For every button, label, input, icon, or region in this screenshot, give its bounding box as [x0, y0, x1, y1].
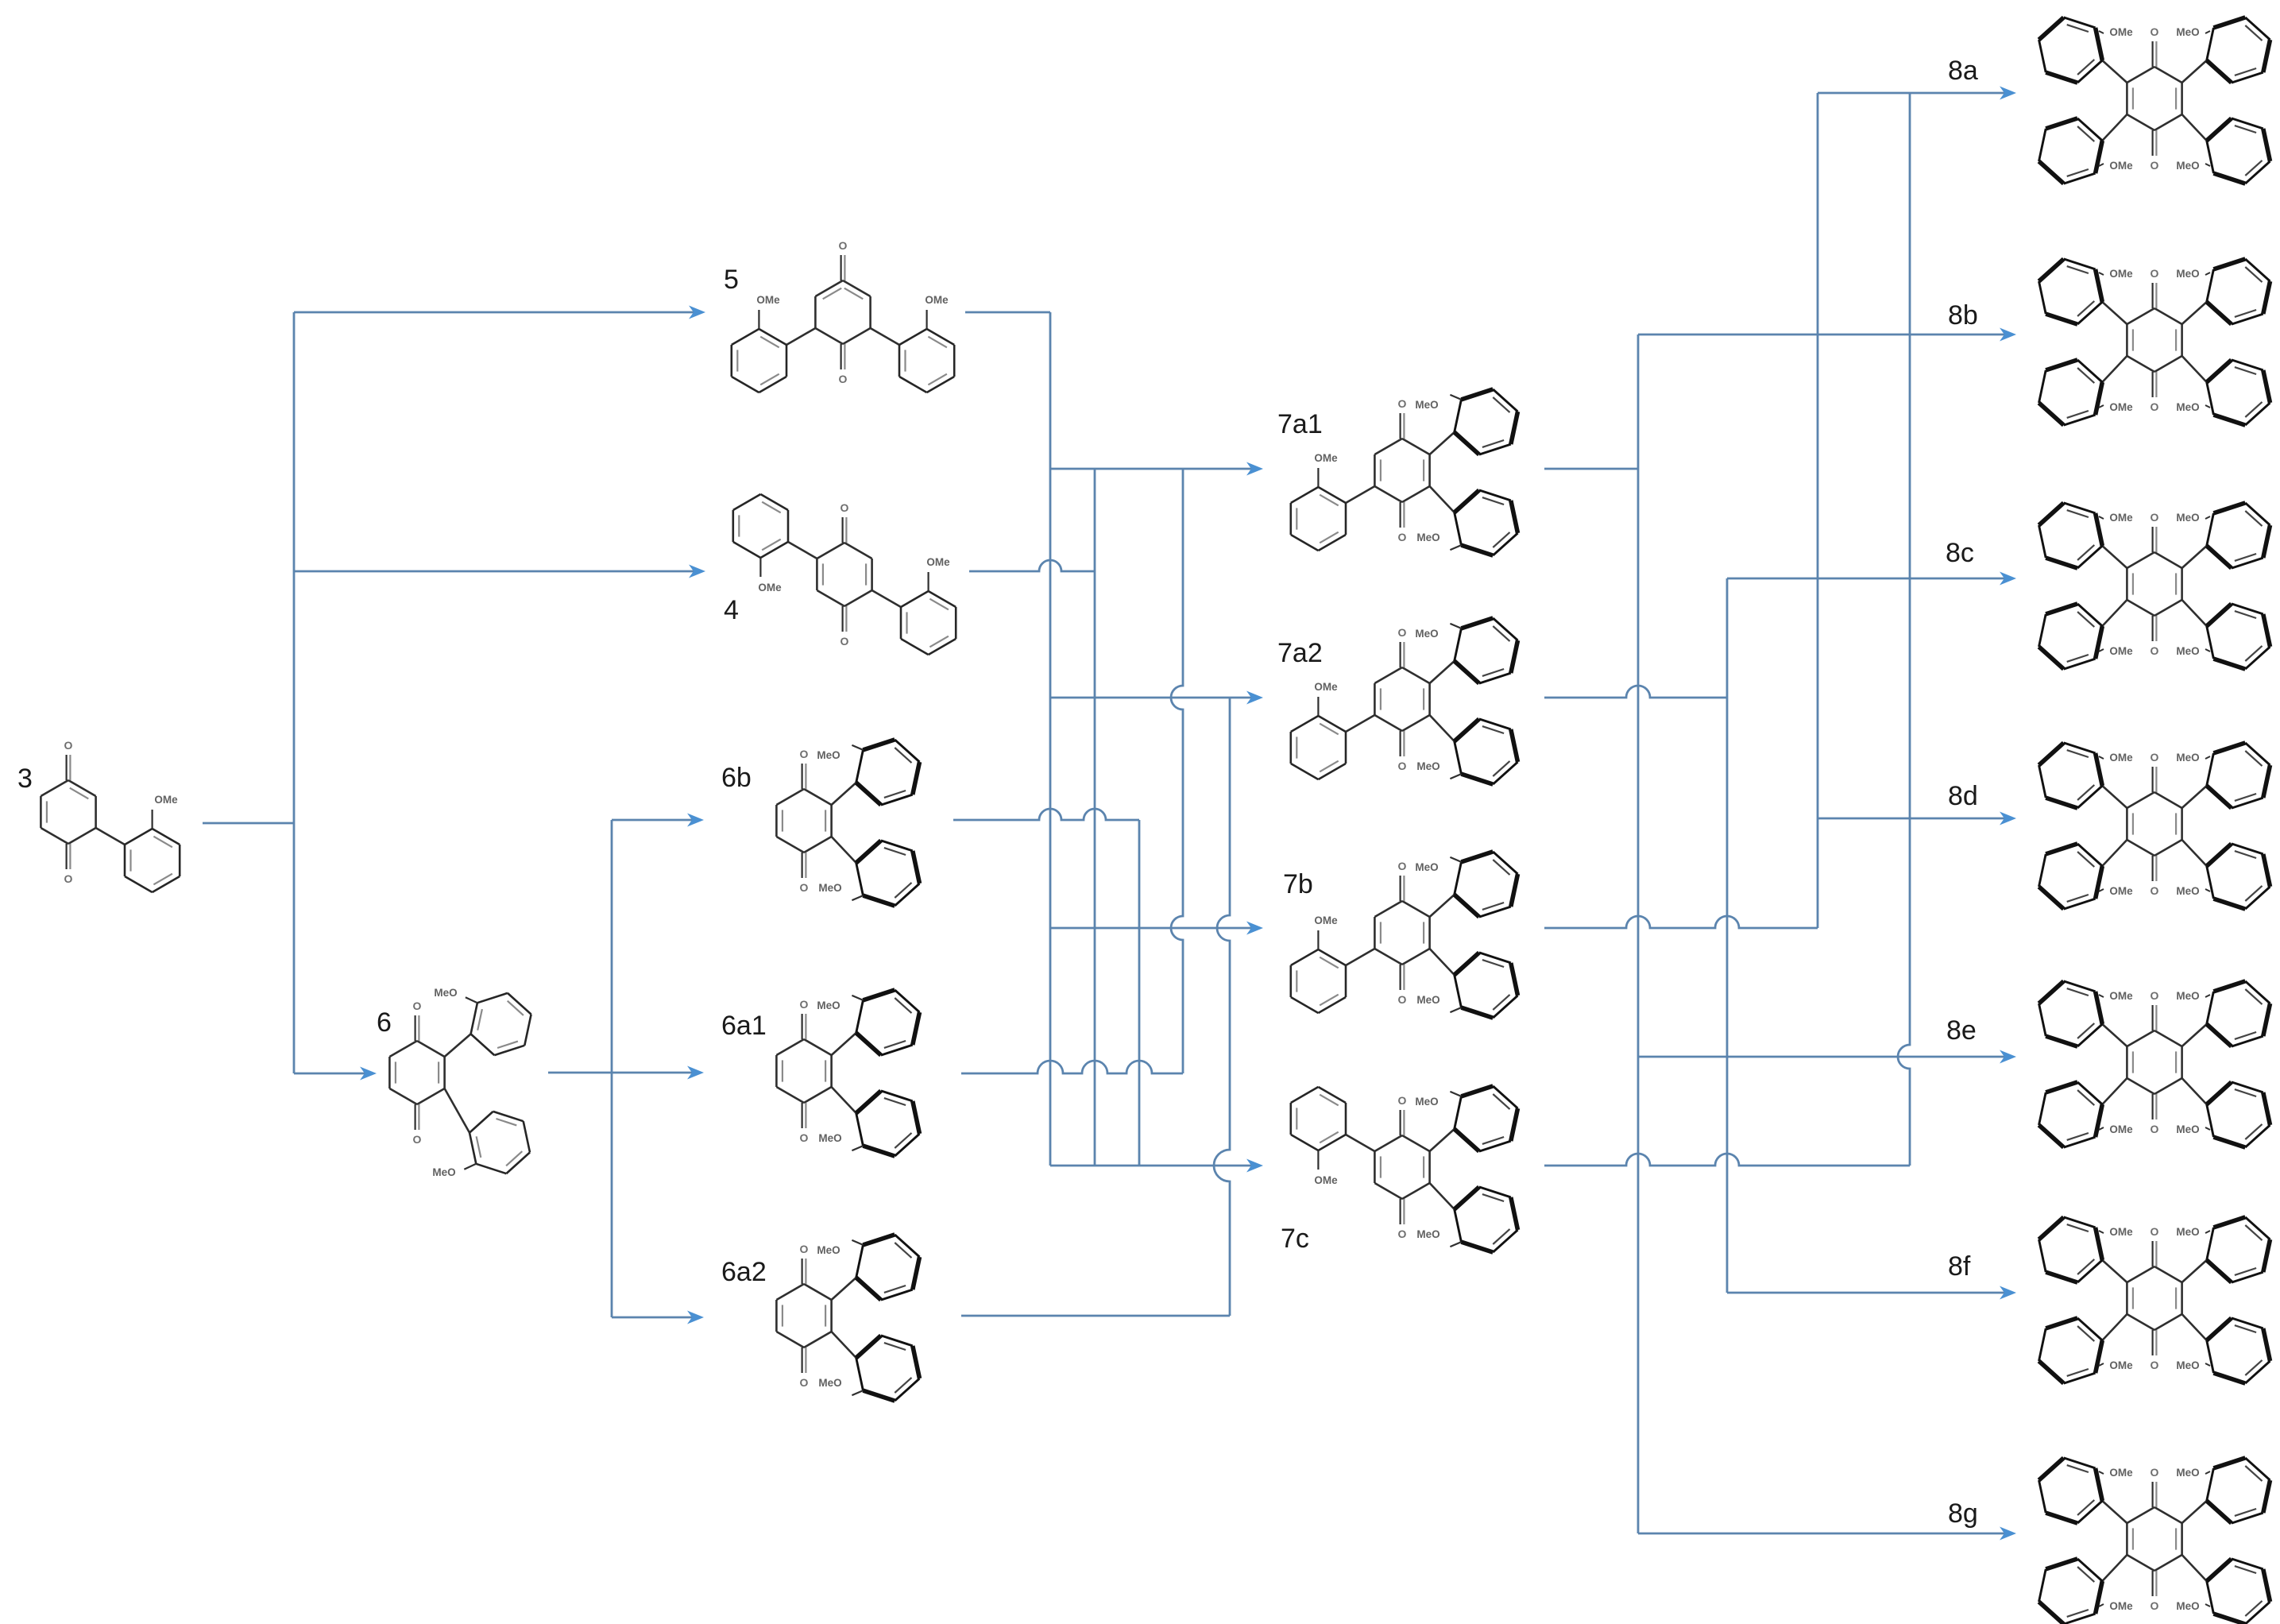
bond quinone to upper bold aryl of 7b: [1430, 895, 1455, 917]
svg-text:8g: 8g: [1948, 1498, 1978, 1529]
bottom OMe/MeO labels of 8d: [2099, 885, 2210, 897]
label 8a: [1948, 56, 1978, 86]
bond quinone to lower bold aryl of 7c: [1430, 1183, 1455, 1209]
svg-text:OMe: OMe: [1314, 1174, 1338, 1186]
svg-text:O: O: [2151, 989, 2159, 1002]
branch arrow to compound 5: [294, 306, 705, 319]
svg-text:MeO: MeO: [1416, 994, 1439, 1006]
OMe group left of 7a1: [1314, 452, 1338, 487]
MeO label upper of 7c: [1415, 1092, 1461, 1108]
arrow row into 7b: [1050, 922, 1263, 935]
MeO group lower of 6: [432, 1164, 476, 1178]
svg-text:O: O: [1398, 626, 1407, 639]
left phenyl of 7a1: [1291, 487, 1346, 551]
svg-text:O: O: [2151, 884, 2159, 897]
label 8g: [1948, 1498, 1978, 1529]
upper-left bold aryl of 8d: [2039, 743, 2103, 808]
compound 7a2 quinone ring: [1374, 626, 1429, 772]
label 8e: [1946, 1015, 1977, 1046]
lower-left bold aryl of 8b: [2039, 360, 2103, 425]
bottom OMe/MeO labels of 8g: [2099, 1600, 2210, 1612]
compound 6a2 quinone ring: [776, 1243, 831, 1389]
top OMe/MeO labels of 8e: [2099, 990, 2210, 1002]
OMe group left of 7c: [1314, 1150, 1338, 1186]
lower bold aryl of 6a2: [856, 1336, 920, 1401]
bond quinone to upper aryl of 6: [445, 1034, 471, 1057]
svg-text:8d: 8d: [1948, 781, 1978, 811]
label 7a2: [1277, 638, 1323, 668]
left phenyl of 7c: [1291, 1087, 1346, 1150]
svg-text:6a2: 6a2: [721, 1257, 767, 1287]
compound 7c quinone ring: [1374, 1094, 1429, 1240]
svg-text:O: O: [800, 1131, 809, 1144]
svg-text:MeO: MeO: [1415, 628, 1438, 640]
MeO label upper of 6a2: [817, 1240, 863, 1256]
top OMe/MeO labels of 8g: [2099, 1467, 2210, 1479]
bond quinone to upper-right aryl of 8b: [2182, 302, 2207, 324]
top OMe/MeO labels of 8f: [2099, 1226, 2210, 1238]
label 8f: [1948, 1251, 1971, 1282]
upper-left bold aryl of 8a: [2039, 17, 2103, 83]
bond quinone to upper-right aryl of 8g: [2182, 1501, 2207, 1523]
compound 4 lower-right phenyl: [901, 591, 956, 655]
bond quinone to upper bold aryl of 6a2: [832, 1278, 856, 1300]
bond quinone to upper bold aryl of 7a2: [1430, 661, 1455, 683]
svg-text:MeO: MeO: [432, 1166, 455, 1178]
svg-text:O: O: [800, 881, 809, 894]
compound 3 quinone ring: [41, 739, 95, 885]
compound 4 quinone ring: [817, 501, 871, 648]
compound 8g quinone ring: [2127, 1466, 2181, 1612]
MeO label lower of 7c: [1416, 1228, 1461, 1247]
MeO label upper of 7a1: [1415, 395, 1461, 411]
upper bold aryl of 6b: [856, 740, 920, 805]
svg-text:O: O: [2151, 1123, 2159, 1135]
svg-text:OMe: OMe: [926, 556, 950, 568]
svg-text:MeO: MeO: [2176, 401, 2199, 413]
svg-text:O: O: [2151, 751, 2159, 764]
svg-text:OMe: OMe: [2109, 645, 2133, 657]
compound 6b quinone ring: [776, 748, 831, 894]
OMe group left of 7a2: [1314, 681, 1338, 716]
bond quinone to lower bold aryl of 6b: [832, 837, 856, 863]
bond quinone to lower-right aryl of 8f: [2182, 1314, 2207, 1340]
svg-text:O: O: [1398, 1228, 1407, 1240]
svg-text:O: O: [2151, 159, 2159, 172]
upper-right bold aryl of 8f: [2207, 1217, 2270, 1282]
trunk V3 (8a corner, 8d out, 7b in): [1817, 93, 1819, 928]
bottom OMe/MeO labels of 8c: [2099, 645, 2210, 657]
compound 5 quinone ring: [815, 239, 870, 385]
wire: output of 6a2 to trunk E: [961, 1315, 1230, 1317]
svg-text:O: O: [1398, 760, 1407, 772]
lower-right bold aryl of 8b: [2207, 360, 2270, 425]
arrow row into 7c: [1050, 1159, 1263, 1173]
compound 6a1 quinone ring: [776, 998, 831, 1144]
bond quinone to upper-left aryl of 8f: [2102, 1260, 2127, 1282]
compound 8e quinone ring: [2127, 989, 2181, 1135]
svg-text:6a1: 6a1: [721, 1011, 767, 1041]
lower-left bold aryl of 8f: [2039, 1318, 2103, 1383]
lower-right bold aryl of 8c: [2207, 604, 2270, 669]
label 7c: [1281, 1224, 1309, 1254]
svg-text:OMe: OMe: [154, 794, 178, 806]
bond quinone-phenyl: [96, 828, 125, 845]
OMe group left of 5: [756, 294, 780, 329]
trunk E (from 6a2, hops over 7b and 7c rows): [1214, 698, 1230, 1316]
top OMe/MeO labels of 8c: [2099, 512, 2210, 524]
bond quinone to lower bold aryl of 7b: [1430, 949, 1455, 975]
arrow row into 7a2: [1050, 691, 1263, 705]
bond quinone to upper-left aryl of 8e: [2102, 1024, 2127, 1046]
trunk A (from 5): [1049, 312, 1052, 1166]
svg-text:7c: 7c: [1281, 1224, 1309, 1254]
branch arrow to compound 6: [294, 1067, 377, 1081]
wire: output of 4 to trunk B (hop over A): [969, 560, 1095, 571]
svg-text:O: O: [800, 1376, 809, 1389]
lower bold aryl of 7c: [1455, 1187, 1518, 1252]
svg-text:O: O: [839, 373, 848, 385]
arrow row into 8c: [1727, 572, 2016, 586]
wire: output of 7b to trunk V3 (hops over V1,V2): [1544, 916, 1818, 928]
svg-text:MeO: MeO: [1415, 1096, 1438, 1108]
compound 6 lower aryl: [470, 1112, 530, 1174]
label 3: [17, 764, 33, 794]
svg-text:MeO: MeO: [434, 987, 457, 999]
compound 3 phenyl ring: [125, 829, 180, 892]
trunk V4 (from 8a row down to 7c, hops over 8e row): [1898, 93, 1910, 1166]
wire: output of 7a2 to trunk V2 (hop over V1): [1544, 686, 1727, 698]
MeO label lower of 6a1: [818, 1132, 863, 1150]
bond quinone to left phenyl of 7c: [1346, 1135, 1374, 1151]
bond quinone to upper-right aryl of 8e: [2182, 1024, 2207, 1046]
bottom OMe/MeO labels of 8e: [2099, 1123, 2210, 1135]
wire: output of 6a1 to trunk D (hops over A,B,C): [961, 1061, 1183, 1073]
bond quinone to upper-right aryl of 8f: [2182, 1260, 2207, 1282]
wire: output of 6b to trunk C (hops over A,B): [953, 809, 1139, 820]
svg-text:8a: 8a: [1948, 56, 1978, 86]
trunk V2 (8c corner, 7a2 in, 8f corner): [1726, 578, 1729, 1293]
svg-text:O: O: [1398, 397, 1407, 410]
svg-text:MeO: MeO: [2176, 268, 2199, 280]
bond quinone to upper-left aryl of 8b: [2102, 302, 2127, 324]
svg-text:7b: 7b: [1283, 869, 1313, 899]
svg-text:OMe: OMe: [2109, 885, 2133, 897]
svg-text:OMe: OMe: [2109, 990, 2133, 1002]
svg-text:OMe: OMe: [2109, 1600, 2133, 1612]
svg-text:MeO: MeO: [2176, 1226, 2199, 1238]
svg-text:8c: 8c: [1946, 538, 1974, 568]
6x trunk vertical: [611, 820, 613, 1317]
top OMe/MeO labels of 8b: [2099, 268, 2210, 280]
svg-text:MeO: MeO: [817, 749, 840, 761]
svg-text:O: O: [2151, 644, 2159, 657]
wire from compound 6 to 6x trunk: [548, 1072, 612, 1074]
bond quinone to lower-right aryl of 8b: [2182, 356, 2207, 382]
label 6: [377, 1007, 392, 1038]
svg-text:O: O: [2151, 1359, 2159, 1371]
arrow row into 8e: [1638, 1050, 2016, 1064]
MeO label lower of 7a2: [1416, 760, 1461, 779]
svg-text:O: O: [1398, 1094, 1407, 1107]
bond quinone to lower-right phenyl: [872, 590, 901, 607]
bond quinone to left phenyl of 7b: [1346, 949, 1374, 965]
OMe group left of 7b: [1314, 914, 1338, 949]
compound 8d quinone ring: [2127, 751, 2181, 897]
label 6a1: [721, 1011, 767, 1041]
svg-text:OMe: OMe: [1314, 452, 1338, 464]
compound 6 upper aryl: [471, 993, 531, 1055]
lower bold aryl of 7b: [1455, 953, 1518, 1018]
OMe group upper-left of 4: [758, 558, 782, 594]
MeO group upper of 6: [434, 987, 477, 1003]
upper-right bold aryl of 8c: [2207, 503, 2270, 568]
OMe group lower-right of 4: [926, 556, 950, 591]
svg-text:O: O: [839, 239, 848, 252]
compound 8c quinone ring: [2127, 511, 2181, 657]
svg-text:OMe: OMe: [756, 294, 780, 306]
svg-text:OMe: OMe: [2109, 401, 2133, 413]
bond quinone to lower bold aryl of 7a2: [1430, 715, 1455, 741]
bond quinone to lower-right aryl of 8c: [2182, 600, 2207, 626]
upper-left bold aryl of 8f: [2039, 1217, 2103, 1282]
MeO label upper of 6b: [817, 745, 863, 761]
bond quinone to upper-left aryl of 8g: [2102, 1501, 2127, 1523]
bond quinone to lower-right aryl of 8d: [2182, 840, 2207, 866]
svg-text:MeO: MeO: [2176, 1359, 2199, 1371]
compound 7b quinone ring: [1374, 860, 1429, 1006]
svg-text:MeO: MeO: [2176, 645, 2199, 657]
svg-text:OMe: OMe: [1314, 681, 1338, 693]
svg-text:O: O: [1398, 531, 1407, 543]
svg-text:OMe: OMe: [2109, 160, 2133, 172]
svg-text:O: O: [413, 1133, 422, 1146]
arrow row into 8a: [1818, 87, 2016, 100]
lower-left bold aryl of 8a: [2039, 118, 2103, 184]
top OMe/MeO labels of 8d: [2099, 752, 2210, 764]
upper-left bold aryl of 8c: [2039, 503, 2103, 568]
lower-left bold aryl of 8e: [2039, 1082, 2103, 1147]
upper bold aryl of 7a1: [1455, 389, 1518, 454]
bond quinone to upper-right aryl of 8d: [2182, 786, 2207, 808]
bond quinone to lower bold aryl of 6a1: [832, 1087, 856, 1113]
svg-text:MeO: MeO: [2176, 160, 2199, 172]
bond quinone to upper bold aryl of 6a1: [832, 1033, 856, 1055]
lower bold aryl of 7a1: [1455, 490, 1518, 555]
MeO label lower of 7b: [1416, 994, 1461, 1012]
arrow to compound 6b: [612, 814, 704, 827]
compound 5 left phenyl: [732, 329, 786, 392]
svg-text:8f: 8f: [1948, 1251, 1971, 1282]
bond quinone to left phenyl: [786, 328, 815, 345]
svg-text:MeO: MeO: [2176, 990, 2199, 1002]
upper-left bold aryl of 8g: [2039, 1458, 2103, 1523]
upper bold aryl of 6a2: [856, 1235, 920, 1300]
svg-text:OMe: OMe: [2109, 512, 2133, 524]
lower-left bold aryl of 8c: [2039, 604, 2103, 669]
MeO label lower of 6b: [818, 882, 863, 900]
arrow row into 8g: [1638, 1527, 2016, 1541]
lower-right bold aryl of 8a: [2207, 118, 2270, 184]
bond quinone to upper-left aryl of 8d: [2102, 786, 2127, 808]
arrow row into 8b: [1638, 328, 2016, 342]
bottom OMe/MeO labels of 8f: [2099, 1359, 2210, 1371]
svg-text:MeO: MeO: [817, 1000, 840, 1011]
bond quinone to upper bold aryl of 7c: [1430, 1129, 1455, 1151]
svg-text:MeO: MeO: [2176, 752, 2199, 764]
OMe group of 3: [153, 794, 179, 829]
lower-right bold aryl of 8d: [2207, 844, 2270, 909]
lower-right bold aryl of 8e: [2207, 1082, 2270, 1147]
bond quinone to lower-left aryl of 8f: [2102, 1314, 2127, 1340]
bond quinone to lower-left aryl of 8e: [2102, 1078, 2127, 1104]
branch arrow to compound 4: [294, 565, 705, 578]
main trunk from 3 (vertical) with branches to 5, 4, 6: [293, 312, 296, 1073]
top OMe/MeO labels of 8a: [2099, 26, 2210, 38]
bond quinone to lower bold aryl of 6a2: [832, 1332, 856, 1358]
compound 8b quinone ring: [2127, 267, 2181, 413]
upper-right bold aryl of 8a: [2207, 17, 2270, 83]
bond quinone to upper bold aryl of 7a1: [1430, 432, 1455, 454]
svg-text:6b: 6b: [721, 763, 752, 793]
compound 8f quinone ring: [2127, 1225, 2181, 1371]
svg-text:OMe: OMe: [2109, 26, 2133, 38]
bond quinone to lower bold aryl of 7a1: [1430, 486, 1455, 512]
svg-text:O: O: [2151, 1599, 2159, 1612]
label 6b: [721, 763, 752, 793]
svg-text:O: O: [413, 1000, 422, 1012]
svg-text:5: 5: [724, 265, 739, 295]
bond quinone to left phenyl of 7a2: [1346, 715, 1374, 732]
svg-text:4: 4: [724, 595, 739, 625]
svg-text:MeO: MeO: [2176, 1123, 2199, 1135]
label 4: [724, 595, 739, 625]
arrow row into 8f: [1727, 1286, 2016, 1300]
label 8b: [1948, 300, 1978, 331]
svg-text:O: O: [2151, 511, 2159, 524]
bond quinone to lower-right aryl of 8e: [2182, 1078, 2207, 1104]
arrow row into 8d: [1818, 812, 2016, 826]
upper bold aryl of 6a1: [856, 990, 920, 1055]
svg-text:O: O: [841, 635, 849, 648]
arrow to compound 6a1: [612, 1066, 704, 1080]
svg-text:OMe: OMe: [1314, 914, 1338, 926]
upper-right bold aryl of 8b: [2207, 259, 2270, 324]
bond quinone to lower aryl of 6: [445, 1088, 470, 1133]
label 6a2: [721, 1257, 767, 1287]
lower-left bold aryl of 8g: [2039, 1559, 2103, 1624]
svg-text:O: O: [2151, 267, 2159, 280]
arrow to compound 6a2: [612, 1311, 704, 1324]
bond quinone to upper bold aryl of 6b: [832, 783, 856, 805]
svg-text:MeO: MeO: [817, 1244, 840, 1256]
svg-text:6: 6: [377, 1007, 392, 1038]
wire: output of 7c to trunk V4 (hops over V1,V2): [1544, 1154, 1910, 1166]
bond quinone to lower-left aryl of 8b: [2102, 356, 2127, 382]
upper bold aryl of 7c: [1455, 1086, 1518, 1151]
svg-text:MeO: MeO: [818, 1377, 841, 1389]
trunk C (from 6b): [1138, 820, 1141, 1166]
svg-text:OMe: OMe: [2109, 268, 2133, 280]
trunk V1 (8b corner, 7a1 in, 8e out, 8g corner): [1637, 334, 1640, 1533]
svg-text:O: O: [841, 501, 849, 514]
svg-text:O: O: [1398, 860, 1407, 872]
svg-text:O: O: [800, 1243, 809, 1255]
lower bold aryl of 6a1: [856, 1091, 920, 1156]
compound 4 upper-left phenyl: [733, 494, 788, 558]
svg-text:MeO: MeO: [2176, 26, 2199, 38]
svg-text:MeO: MeO: [1416, 532, 1439, 543]
bond quinone to lower-left aryl of 8c: [2102, 600, 2127, 626]
svg-text:O: O: [64, 872, 73, 885]
bond quinone to lower-left aryl of 8a: [2102, 114, 2127, 141]
trunk D (from 6a1, hops over 7a2 and 7b rows): [1171, 469, 1183, 1073]
arrow row into 7a1: [1050, 462, 1263, 476]
wire from compound 3 to main trunk: [203, 822, 294, 825]
compound 8a quinone ring: [2127, 25, 2181, 172]
bottom OMe/MeO labels of 8b: [2099, 401, 2210, 413]
svg-text:OMe: OMe: [2109, 1123, 2133, 1135]
svg-text:O: O: [2151, 25, 2159, 38]
MeO label upper of 6a1: [817, 996, 863, 1011]
lower bold aryl of 6b: [856, 841, 920, 906]
upper-right bold aryl of 8g: [2207, 1458, 2270, 1523]
lower-left bold aryl of 8d: [2039, 844, 2103, 909]
bond quinone to upper-right aryl of 8a: [2182, 60, 2207, 83]
MeO label upper of 7a2: [1415, 624, 1461, 640]
svg-text:OMe: OMe: [758, 582, 782, 594]
svg-text:O: O: [64, 739, 73, 752]
trunk B (from 4): [1094, 469, 1096, 1166]
svg-text:O: O: [2151, 1466, 2159, 1479]
upper-right bold aryl of 8d: [2207, 743, 2270, 808]
svg-text:7a2: 7a2: [1277, 638, 1323, 668]
svg-text:OMe: OMe: [2109, 752, 2133, 764]
svg-text:MeO: MeO: [1416, 760, 1439, 772]
svg-text:O: O: [2151, 1225, 2159, 1238]
compound 5 right phenyl: [899, 329, 954, 392]
svg-text:MeO: MeO: [2176, 1600, 2199, 1612]
bond quinone to upper-left phenyl: [788, 542, 817, 559]
bond quinone to left phenyl of 7a1: [1346, 486, 1374, 503]
svg-text:7a1: 7a1: [1277, 409, 1323, 439]
svg-text:OMe: OMe: [2109, 1359, 2133, 1371]
svg-text:MeO: MeO: [2176, 512, 2199, 524]
svg-text:3: 3: [17, 764, 33, 794]
left phenyl of 7a2: [1291, 716, 1346, 779]
svg-text:MeO: MeO: [1416, 1228, 1439, 1240]
label 8d: [1948, 781, 1978, 811]
svg-text:MeO: MeO: [1415, 399, 1438, 411]
svg-text:OMe: OMe: [2109, 1467, 2133, 1479]
svg-text:OMe: OMe: [925, 294, 949, 306]
svg-text:O: O: [800, 998, 809, 1011]
upper bold aryl of 7a2: [1455, 618, 1518, 683]
bond quinone to right phenyl: [871, 328, 899, 345]
lower bold aryl of 7a2: [1455, 719, 1518, 784]
bond quinone to lower-left aryl of 8d: [2102, 840, 2127, 866]
MeO label lower of 7a1: [1416, 532, 1461, 550]
bond quinone to lower-right aryl of 8g: [2182, 1555, 2207, 1581]
svg-text:O: O: [800, 748, 809, 760]
bottom OMe/MeO labels of 8a: [2099, 160, 2210, 172]
bond quinone to lower-left aryl of 8g: [2102, 1555, 2127, 1581]
upper-right bold aryl of 8e: [2207, 981, 2270, 1046]
bond quinone to upper-left aryl of 8c: [2102, 546, 2127, 568]
bond quinone to upper-right aryl of 8c: [2182, 546, 2207, 568]
upper bold aryl of 7b: [1455, 852, 1518, 917]
wire: output of 5 to trunk A: [965, 311, 1050, 314]
